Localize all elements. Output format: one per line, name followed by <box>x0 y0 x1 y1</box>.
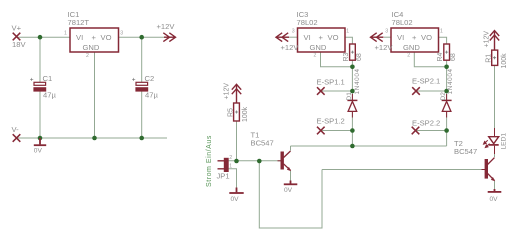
svg-text:BC547: BC547 <box>454 147 477 156</box>
svg-text:VI: VI <box>76 33 83 42</box>
svg-text:Strom Ein/Aus: Strom Ein/Aus <box>206 135 213 187</box>
svg-text:R3: R3 <box>343 52 350 61</box>
svg-text:0V: 0V <box>34 148 43 155</box>
svg-text:3: 3 <box>120 31 123 37</box>
svg-text:+12V: +12V <box>157 22 176 31</box>
svg-text:VI: VI <box>397 33 404 42</box>
svg-text:0V: 0V <box>284 187 293 194</box>
svg-text:+12V: +12V <box>224 83 231 100</box>
svg-text:2: 2 <box>86 53 89 59</box>
svg-text:R4: R4 <box>437 52 444 61</box>
svg-text:GND: GND <box>310 43 327 52</box>
svg-text:+: + <box>132 76 136 83</box>
svg-text:100k: 100k <box>242 106 249 122</box>
svg-text:E-SP1.1: E-SP1.1 <box>317 77 345 86</box>
svg-text:1: 1 <box>229 164 232 170</box>
svg-text:VO: VO <box>421 33 432 42</box>
svg-text:+12V: +12V <box>281 43 300 52</box>
svg-text:VO: VO <box>328 33 339 42</box>
svg-text:+: + <box>319 33 324 42</box>
svg-text:VO: VO <box>101 33 112 42</box>
svg-text:47µ: 47µ <box>145 91 158 100</box>
svg-text:R1: R1 <box>485 54 492 63</box>
svg-text:+12V: +12V <box>375 43 394 52</box>
svg-text:+: + <box>92 33 97 42</box>
svg-text:3: 3 <box>385 29 388 35</box>
svg-text:0V: 0V <box>490 196 499 203</box>
svg-text:V-: V- <box>12 125 20 134</box>
svg-text:VI: VI <box>304 33 311 42</box>
svg-text:V+: V+ <box>12 24 22 33</box>
svg-text:2: 2 <box>407 53 410 59</box>
svg-text:2: 2 <box>229 155 232 161</box>
svg-text:1N4004: 1N4004 <box>354 68 361 94</box>
svg-text:0V: 0V <box>231 196 240 203</box>
svg-text:1N4004: 1N4004 <box>447 68 454 94</box>
svg-text:3: 3 <box>292 29 295 35</box>
svg-text:C2: C2 <box>145 74 155 83</box>
svg-text:68: 68 <box>450 53 457 61</box>
svg-text:18V: 18V <box>12 40 26 49</box>
svg-text:GND: GND <box>83 43 100 52</box>
svg-text:78L02: 78L02 <box>297 18 318 27</box>
svg-text:1: 1 <box>64 31 67 37</box>
svg-text:78L02: 78L02 <box>392 18 413 27</box>
svg-text:1: 1 <box>346 29 349 35</box>
svg-text:100k: 100k <box>501 53 508 69</box>
svg-text:E-SP2.2: E-SP2.2 <box>412 119 440 128</box>
svg-text:2: 2 <box>314 53 317 59</box>
svg-text:+: + <box>412 33 417 42</box>
svg-text:BC547: BC547 <box>251 139 274 148</box>
svg-text:7812T: 7812T <box>68 18 90 27</box>
svg-text:D1: D1 <box>346 92 353 101</box>
svg-text:1: 1 <box>440 29 443 35</box>
svg-text:LED1: LED1 <box>500 133 507 150</box>
svg-text:GND: GND <box>403 43 420 52</box>
svg-text:JP1: JP1 <box>217 171 230 180</box>
svg-text:+: + <box>30 76 34 83</box>
svg-text:E-SP2.1: E-SP2.1 <box>412 77 440 86</box>
svg-text:R5: R5 <box>228 108 235 117</box>
svg-text:C1: C1 <box>43 74 53 83</box>
svg-text:47µ: 47µ <box>43 91 56 100</box>
svg-text:E-SP1.2: E-SP1.2 <box>317 117 345 126</box>
svg-text:+12V: +12V <box>484 31 491 48</box>
svg-text:68: 68 <box>356 53 363 61</box>
